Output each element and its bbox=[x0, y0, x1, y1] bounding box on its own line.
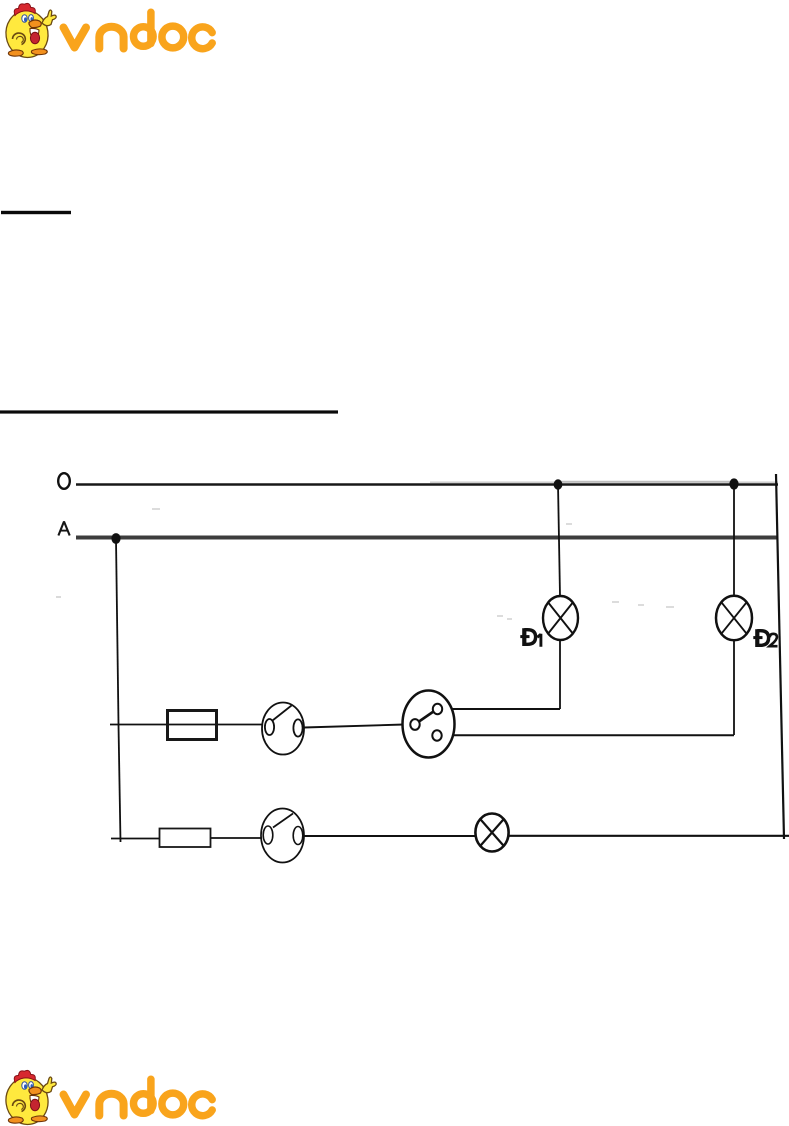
wire: bottom row feed bbox=[111, 838, 160, 840]
lamp D2 bbox=[716, 596, 752, 641]
wire: two-way switch bottom output to lamp D2 bbox=[442, 734, 735, 736]
wire: S2 to lamp D3 bbox=[304, 835, 476, 837]
wire: middle row feed bbox=[110, 724, 263, 726]
junction on line O (lamp D2 branch) bbox=[729, 478, 738, 489]
wire: bus line A bbox=[76, 536, 778, 540]
fuse F1 bbox=[168, 711, 217, 740]
wire: O line down to lamp D2 bbox=[733, 484, 735, 596]
junction on line A bbox=[111, 533, 120, 544]
wire: O line down to lamp D1 bbox=[558, 484, 560, 596]
section underline bbox=[0, 410, 338, 413]
label D2 bbox=[753, 629, 777, 647]
logo vndoc bottom bbox=[3, 1070, 212, 1126]
wire: bus line O bbox=[76, 483, 778, 486]
logo vndoc top bbox=[3, 3, 212, 60]
wire: lamp D1 down to switch level bbox=[559, 640, 561, 709]
wire: two-way switch top output to lamp D1 bbox=[442, 708, 560, 710]
wire: right-edge return conductor bbox=[776, 474, 784, 839]
wire: F2 to S2 bbox=[211, 837, 262, 839]
wire: A line drop to middle row bbox=[116, 539, 119, 724]
switch S1 single-pole bbox=[262, 703, 304, 755]
lamp D3 bbox=[475, 814, 508, 852]
wire: S1 to two-way switch bbox=[304, 725, 404, 728]
lamp D1 bbox=[543, 596, 578, 640]
node A label bbox=[58, 522, 69, 536]
two-way switch S3 bbox=[403, 691, 455, 758]
wire: A drop continues to bottom row bbox=[119, 725, 121, 842]
switch S2 single-pole bbox=[261, 809, 304, 863]
fuse F2 bbox=[160, 829, 211, 848]
label D1 bbox=[520, 628, 541, 647]
node O label bbox=[58, 473, 70, 489]
wire: lamp D3 to right edge bbox=[509, 835, 789, 837]
heading underline bbox=[1, 211, 71, 214]
junction on line O (lamp D1 branch) bbox=[554, 479, 563, 489]
wire: lamp D2 down to switch level bbox=[733, 640, 735, 735]
